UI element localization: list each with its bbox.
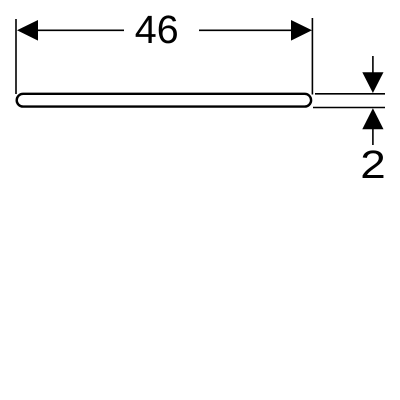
leader line below up arrow	[372, 128, 374, 145]
extension line bottom (2 dim)	[313, 107, 385, 109]
arrowhead left of 46 dim	[17, 20, 38, 41]
leader line above down arrow	[372, 56, 374, 74]
dimension text 46	[136, 15, 177, 43]
extension line left (46 dim)	[15, 19, 17, 94]
dimension line 46 left segment	[34, 29, 124, 31]
shelf profile (pill-shaped bar)	[17, 94, 311, 107]
down arrowhead (2 dim)	[362, 72, 383, 93]
up arrowhead (2 dim)	[362, 108, 383, 129]
extension line top (2 dim)	[315, 93, 385, 95]
dimension line 46 right segment	[199, 29, 294, 31]
extension line right (46 dim)	[311, 18, 313, 95]
arrowhead right of 46 dim	[291, 20, 312, 41]
dimension text 2	[363, 150, 384, 178]
